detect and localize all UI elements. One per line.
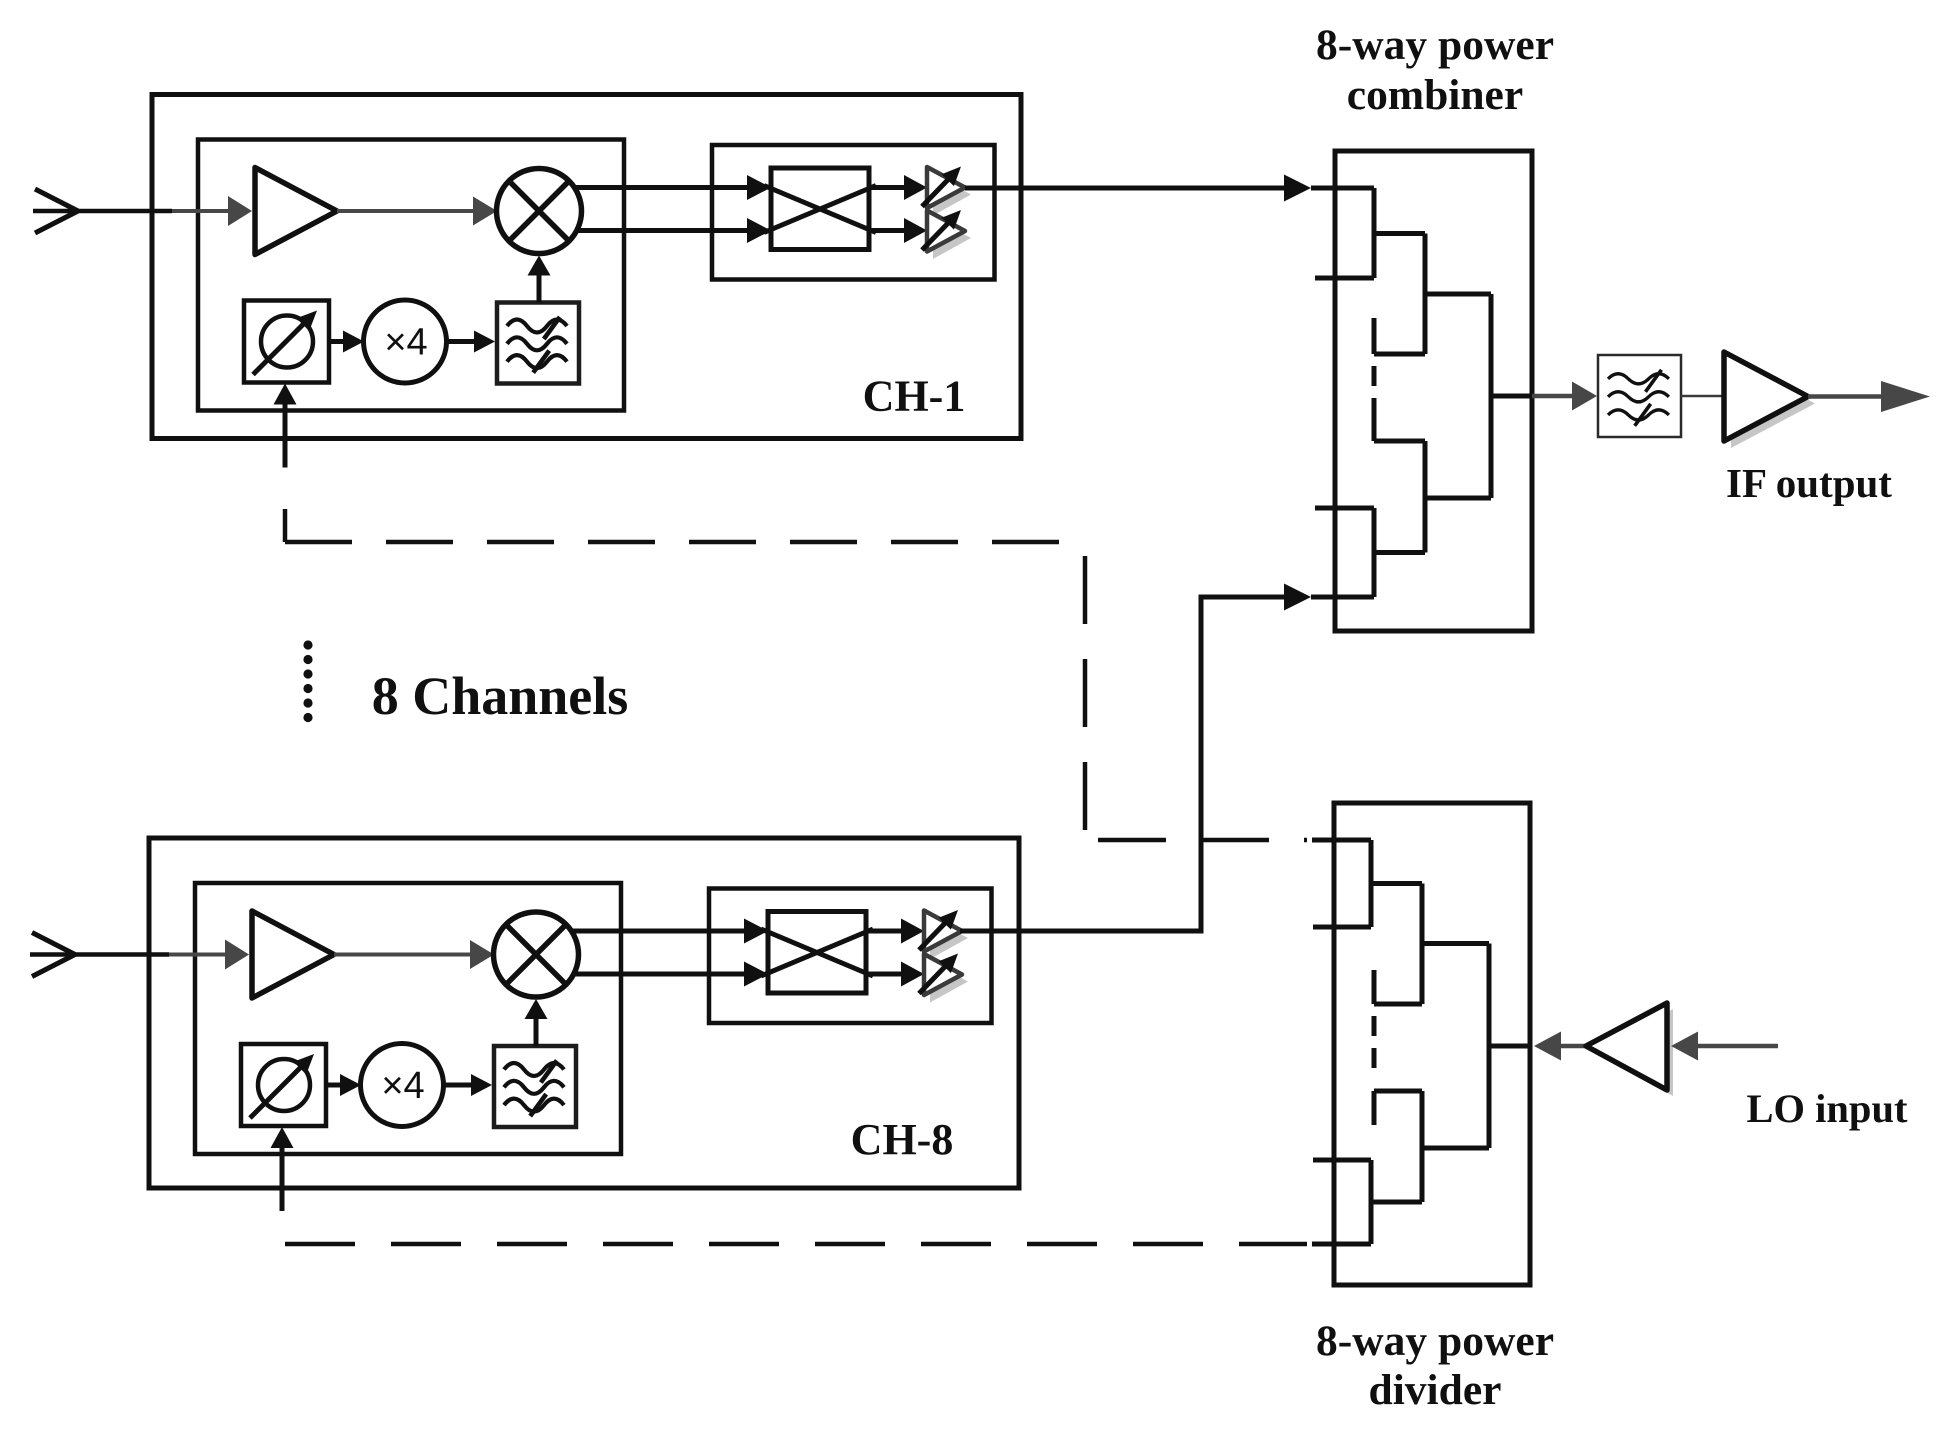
combiner stage-1 bottom pair bar	[1372, 508, 1377, 597]
LO buffer amplifier	[1586, 1003, 1667, 1090]
combiner input 2 stub	[1315, 276, 1374, 281]
svg-text:8 Channels: 8 Channels	[372, 666, 629, 726]
svg-text:CH-1: CH-1	[863, 372, 966, 421]
phase control arrow into phase shifter CH-1	[274, 384, 297, 468]
IF band-pass filter	[1598, 355, 1681, 437]
combiner stage-2 lower output	[1425, 496, 1491, 501]
wire LO input	[1671, 1032, 1778, 1061]
combiner stage-3 bar	[1489, 294, 1494, 498]
VGA2 CH-1 shadow	[933, 218, 971, 259]
combiner input 7 stub	[1315, 506, 1374, 511]
combiner hidden-channel stub lower	[1374, 439, 1425, 444]
dashed phase-control wire from CH-8	[285, 1242, 1371, 1247]
channel CH-1 RF front-end inner box	[198, 140, 624, 411]
wire IF output	[1808, 381, 1930, 412]
IF hybrid block outer box CH-8	[709, 889, 992, 1024]
svg-text:divider: divider	[1369, 1366, 1502, 1414]
wire hybrid to VGA1 CH-8	[866, 919, 924, 944]
phase shifter CH-1	[244, 301, 329, 383]
mixer CH-1	[497, 169, 582, 254]
wire mixer Q output CH-1	[576, 218, 771, 243]
divider hidden-channel stub lower	[1374, 1091, 1422, 1125]
wire mixer Q output CH-8	[573, 962, 768, 987]
wire LO amp to divider	[1534, 1032, 1588, 1061]
svg-text:×4: ×4	[384, 322, 427, 364]
divider pair-4 wire	[1371, 1200, 1422, 1205]
combiner dashed continuation verticals	[1372, 366, 1377, 441]
divider stage-3 bar	[1487, 944, 1492, 1149]
IF hybrid block outer box CH-1	[712, 145, 995, 280]
wire x4 multiplier to LO filter CH-1	[446, 331, 495, 353]
8-way power divider box	[1334, 803, 1530, 1285]
wire CH-8 IF output to combiner input 8	[960, 584, 1374, 932]
svg-text:IF output: IF output	[1726, 460, 1892, 506]
VGA1 CH-1 shadow	[933, 175, 971, 216]
wire combiner to IF filter	[1532, 382, 1597, 411]
wire IF filter to IF amplifier	[1681, 395, 1724, 398]
wire CH-1 IF output to combiner input 1	[965, 175, 1374, 202]
divider stage-2 lower bar	[1420, 1091, 1425, 1202]
8-way power combiner box	[1335, 151, 1532, 631]
divider output 7 stub	[1313, 1158, 1371, 1163]
wire LNA to mixer CH-8	[334, 940, 494, 969]
phase control arrow into phase shifter CH-8	[271, 1127, 294, 1211]
svg-text:×4: ×4	[381, 1065, 424, 1107]
VGA1 CH-1	[922, 167, 965, 209]
wire phase shifter to x4 multiplier CH-8	[326, 1074, 361, 1096]
LO buffer amplifier shadow	[1592, 1009, 1673, 1096]
VGA2 CH-8 shadow	[930, 962, 968, 1003]
RF input port chevron CH-8	[32, 933, 75, 977]
divider stage-2 upper wire	[1422, 941, 1489, 946]
phase shifter CH-8	[241, 1044, 326, 1126]
combiner pair-4 output wire	[1374, 550, 1425, 555]
wire mixer I output CH-8	[573, 919, 768, 944]
divider feed wire	[1489, 1044, 1530, 1049]
LO band-pass filter CH-8	[494, 1046, 576, 1127]
divider output 2 stub	[1313, 925, 1371, 930]
divider dashed continuation verticals	[1372, 1016, 1377, 1068]
wire LO filter to mixer CH-8	[525, 999, 548, 1046]
VGA2 CH-8	[919, 954, 962, 996]
divider stage-1 bottom pair bar	[1369, 1160, 1374, 1244]
mixer CH-8	[494, 912, 579, 997]
wire RF input CH-1	[33, 196, 252, 226]
channel CH-8 RF front-end inner box	[195, 883, 621, 1154]
VGA1 CH-8 shadow	[930, 918, 968, 959]
wire LO filter to mixer CH-1	[528, 256, 551, 303]
wire phase shifter to x4 multiplier CH-1	[329, 331, 364, 353]
divider stage-2 lower wire	[1422, 1146, 1489, 1151]
RF input port chevron CH-1	[35, 189, 78, 233]
ellipsis dots 8 channels	[303, 640, 312, 722]
LNA amplifier CH-8	[252, 911, 334, 998]
wire hybrid to VGA1 CH-1	[869, 175, 927, 200]
wire hybrid to VGA2 CH-8	[866, 962, 924, 987]
combiner output wire	[1491, 394, 1532, 399]
svg-text:8-way power: 8-way power	[1316, 1317, 1554, 1365]
wire LNA to mixer CH-1	[337, 197, 497, 226]
svg-text:CH-8: CH-8	[851, 1115, 954, 1164]
combiner stage-2 upper output	[1425, 292, 1491, 297]
channel CH-8 outer box	[149, 838, 1019, 1188]
VGA1 CH-8	[919, 910, 962, 952]
wire RF input CH-8	[30, 940, 249, 970]
wire mixer I output CH-1	[576, 175, 771, 200]
90-degree hybrid coupler CH-1	[764, 168, 876, 250]
LNA amplifier CH-1	[255, 168, 337, 255]
IF amplifier	[1724, 352, 1808, 441]
IF amplifier shadow	[1731, 359, 1815, 448]
VGA2 CH-1	[922, 210, 965, 252]
wire x4 multiplier to LO filter CH-8	[443, 1074, 492, 1096]
wire hybrid to VGA2 CH-1	[869, 218, 927, 243]
svg-text:8-way power: 8-way power	[1316, 21, 1554, 69]
divider stage-2 upper bar	[1420, 884, 1425, 1005]
svg-text:combiner: combiner	[1347, 71, 1523, 119]
channel CH-1 outer box	[152, 95, 1021, 439]
x4 frequency multiplier CH-1	[364, 300, 447, 383]
90-degree hybrid coupler CH-8	[761, 912, 873, 994]
combiner hidden-channel stub upper	[1374, 318, 1425, 354]
LO band-pass filter CH-1	[497, 303, 579, 384]
combiner stage-1 top pair bar	[1372, 188, 1377, 278]
divider hidden-channel stub upper	[1374, 970, 1422, 1004]
divider stage-1 top pair bar	[1369, 840, 1374, 927]
x4 frequency multiplier CH-8	[361, 1044, 444, 1127]
svg-text:LO input: LO input	[1747, 1086, 1908, 1131]
combiner stage-2 lower bar	[1423, 441, 1428, 553]
combiner stage-2 upper bar	[1423, 234, 1428, 355]
dashed phase-control wire from CH-1	[285, 509, 1371, 840]
combiner pair-1 output wire	[1374, 231, 1425, 236]
divider pair-1 wire	[1371, 881, 1422, 886]
